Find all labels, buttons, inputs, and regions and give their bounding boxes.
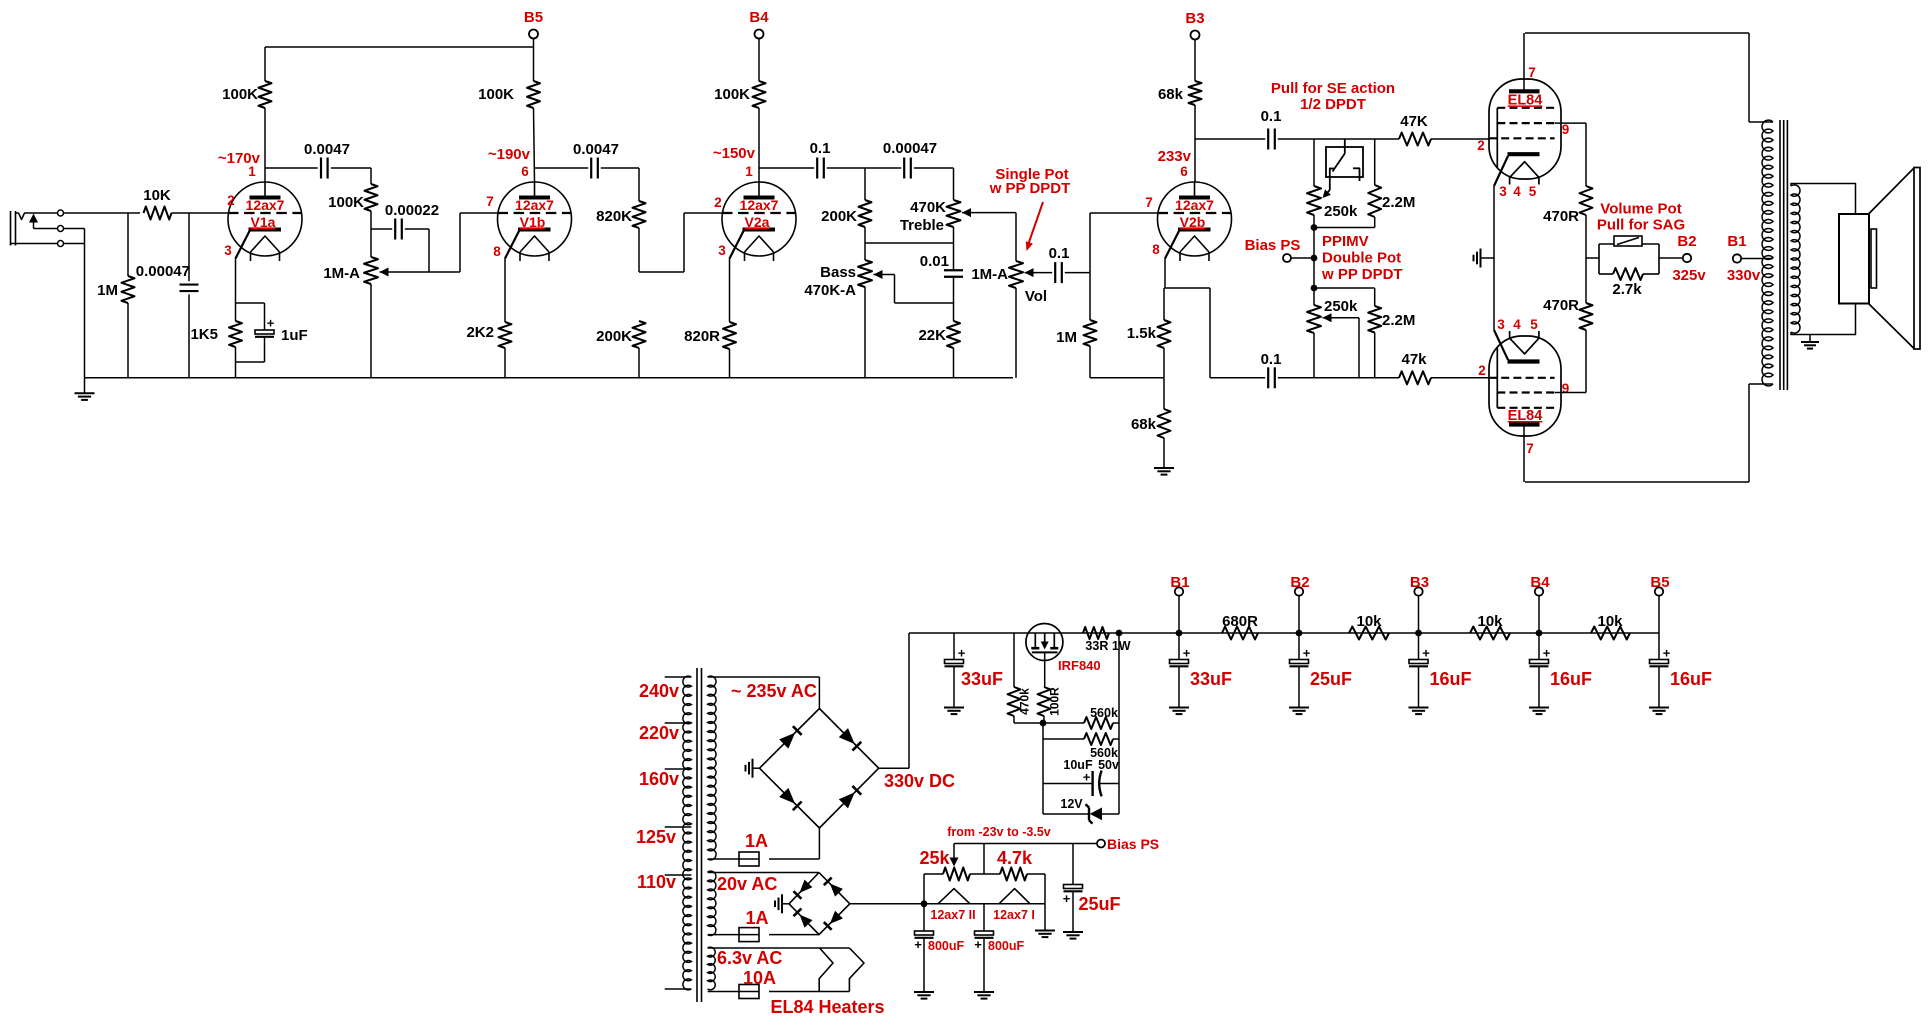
svg-text:470K-A: 470K-A bbox=[804, 282, 856, 299]
wire regulator right column bbox=[1118, 633, 1120, 814]
svg-text:7: 7 bbox=[1528, 65, 1536, 80]
svg-text:470k: 470k bbox=[1018, 688, 1032, 715]
svg-text:16uF: 16uF bbox=[1430, 669, 1472, 689]
svg-text:4: 4 bbox=[1513, 317, 1521, 332]
svg-text:0.1: 0.1 bbox=[810, 140, 831, 157]
terminal B3 bbox=[1414, 587, 1422, 595]
svg-text:2: 2 bbox=[1478, 363, 1486, 378]
capacitor 0.1 PI upper out bbox=[1195, 138, 1265, 140]
svg-text:33uF: 33uF bbox=[1190, 669, 1232, 689]
svg-text:~ 235v AC: ~ 235v AC bbox=[731, 681, 817, 701]
svg-text:100R: 100R bbox=[1048, 687, 1062, 716]
svg-text:2: 2 bbox=[714, 195, 722, 210]
svg-text:B1: B1 bbox=[1727, 233, 1746, 250]
terminal B2 output bbox=[1659, 257, 1683, 259]
resistor 68k B3 feed bbox=[1189, 81, 1202, 105]
svg-text:Pull for SAG: Pull for SAG bbox=[1597, 217, 1685, 234]
ground bbox=[84, 378, 86, 394]
svg-text:25uF: 25uF bbox=[1310, 669, 1352, 689]
red arrow to Vol pot bbox=[1028, 202, 1043, 245]
svg-text:5: 5 bbox=[1529, 184, 1537, 199]
svg-text:240v: 240v bbox=[639, 681, 679, 701]
svg-text:0.00047: 0.00047 bbox=[883, 140, 937, 157]
wire bias out bbox=[850, 903, 1045, 905]
svg-text:250k: 250k bbox=[1324, 203, 1358, 220]
PT primary taps bbox=[665, 676, 692, 678]
svg-text:68k: 68k bbox=[1131, 416, 1157, 433]
transformer PT HV secondary bbox=[708, 676, 716, 860]
resistor 1.5k tail upper bbox=[1164, 259, 1166, 289]
ground B4 bbox=[1529, 707, 1549, 709]
svg-text:2.2M: 2.2M bbox=[1382, 312, 1415, 329]
ground secondary bbox=[1809, 335, 1811, 343]
capacitor 1uF cathode bypass bbox=[236, 302, 265, 304]
svg-text:12ax7 I: 12ax7 I bbox=[993, 908, 1035, 922]
transformer OT core bbox=[1779, 120, 1781, 390]
wire EL84 cathodes bbox=[1493, 186, 1495, 330]
bridge rectifier bias bbox=[789, 873, 850, 935]
wire B+ rail bbox=[909, 632, 1659, 634]
svg-text:330v DC: 330v DC bbox=[884, 771, 955, 791]
tube V2b 12ax7 bbox=[1089, 213, 1091, 273]
resistor 470R lower screen bbox=[1580, 303, 1593, 330]
svg-text:20v AC: 20v AC bbox=[717, 874, 777, 894]
capacitor 0.0047 coupling V1a bbox=[265, 167, 318, 169]
svg-text:160v: 160v bbox=[639, 769, 679, 789]
ground bridge left bbox=[753, 767, 760, 769]
capacitor 0.01 bass bbox=[944, 269, 963, 271]
mosfet IRF840 bbox=[1026, 624, 1063, 661]
svg-text:4.7k: 4.7k bbox=[997, 848, 1033, 868]
resistor 820R cathode V2a bbox=[729, 259, 731, 323]
svg-text:1.5k: 1.5k bbox=[1127, 325, 1157, 342]
svg-text:5: 5 bbox=[1530, 317, 1538, 332]
terminal B4 bbox=[1535, 587, 1543, 595]
svg-text:7: 7 bbox=[486, 194, 494, 209]
svg-text:9: 9 bbox=[1562, 122, 1570, 137]
node PPIMV upper bbox=[1311, 224, 1318, 231]
resistor 560k upper bbox=[1043, 722, 1084, 724]
terminal Bias PS input bbox=[1283, 254, 1291, 262]
svg-text:~150v: ~150v bbox=[713, 145, 756, 162]
diode D2 top-right bbox=[839, 728, 855, 744]
resistor 10K series bbox=[144, 207, 172, 220]
ground 800uF 1 bbox=[914, 991, 934, 993]
ground B5 bbox=[1649, 707, 1669, 709]
svg-text:250k: 250k bbox=[1324, 298, 1358, 315]
resistor 10k B3-B4 bbox=[1470, 627, 1510, 640]
wire PPIMV top rail bbox=[1314, 138, 1399, 140]
capacitor 0.00022 bright bbox=[371, 228, 392, 230]
svg-text:110v: 110v bbox=[637, 872, 676, 892]
svg-text:3: 3 bbox=[224, 243, 232, 258]
svg-text:B5: B5 bbox=[1650, 574, 1669, 591]
node B1 bbox=[1176, 630, 1183, 637]
resistor 47k lower grid stop bbox=[1399, 371, 1431, 384]
resistor 68k tail bbox=[1158, 409, 1171, 438]
svg-text:1M: 1M bbox=[1056, 329, 1077, 346]
heater chevron 12ax7 I bbox=[999, 889, 1030, 904]
terminal B5 bbox=[529, 30, 538, 39]
capacitor 16uF B4 bbox=[1538, 633, 1540, 660]
svg-text:+: + bbox=[914, 937, 922, 952]
svg-text:0.00022: 0.00022 bbox=[385, 202, 439, 219]
jack plug arrow bbox=[29, 214, 38, 223]
svg-text:+: + bbox=[1422, 646, 1430, 661]
svg-text:3: 3 bbox=[1499, 184, 1507, 199]
capacitor 0.00047 treble bbox=[903, 158, 905, 179]
diode bias D2 bbox=[830, 884, 843, 897]
jack sleeve wire bbox=[11, 243, 58, 245]
svg-text:10A: 10A bbox=[743, 968, 776, 988]
speaker bbox=[1839, 214, 1869, 304]
fuse 10A heaters bbox=[708, 991, 739, 993]
svg-text:560k: 560k bbox=[1090, 706, 1118, 720]
tube EL84 lower bbox=[1489, 336, 1561, 436]
potentiometer 250k upper bbox=[1313, 139, 1315, 186]
svg-text:+: + bbox=[1303, 646, 1311, 661]
svg-text:3: 3 bbox=[718, 243, 726, 258]
svg-text:B1: B1 bbox=[1170, 574, 1189, 591]
diode bias D1 bbox=[800, 880, 813, 893]
svg-text:Double Pot: Double Pot bbox=[1322, 250, 1401, 267]
svg-text:0.1: 0.1 bbox=[1261, 108, 1282, 125]
svg-text:12ax7: 12ax7 bbox=[246, 197, 285, 213]
transformer PT 6.3v winding bbox=[708, 947, 716, 990]
fuse 1A HV bbox=[708, 858, 739, 860]
resistor 680R bbox=[1222, 627, 1258, 640]
potentiometer 25k bias bbox=[924, 873, 943, 875]
svg-text:0.1: 0.1 bbox=[1261, 351, 1282, 368]
resistor 2K2 cathode V1b bbox=[504, 259, 506, 323]
ground 33uF reservoir bbox=[944, 707, 964, 709]
resistor 470k gate bleed bbox=[1013, 633, 1015, 687]
svg-text:6: 6 bbox=[521, 164, 529, 179]
node B2 bbox=[1296, 630, 1303, 637]
svg-text:200K: 200K bbox=[821, 208, 857, 225]
wire HV top to bridge bbox=[708, 676, 820, 678]
svg-text:820K: 820K bbox=[596, 208, 632, 225]
node gate divider bbox=[1040, 720, 1047, 727]
node after 33R bbox=[1116, 630, 1123, 637]
wire PPIMV center bbox=[1313, 228, 1315, 289]
capacitor 33uF reservoir bbox=[953, 633, 955, 660]
svg-text:2: 2 bbox=[1477, 138, 1485, 153]
ground 4.7k bbox=[1044, 904, 1046, 931]
svg-text:0.1: 0.1 bbox=[1049, 245, 1070, 262]
svg-text:B4: B4 bbox=[749, 9, 769, 26]
svg-text:+: + bbox=[267, 316, 275, 331]
svg-text:V2b: V2b bbox=[1180, 214, 1206, 230]
node bias feed bbox=[1311, 255, 1318, 262]
svg-text:470R: 470R bbox=[1543, 297, 1579, 314]
fuse 1A bias bbox=[708, 934, 739, 936]
heater ribbon chevron outer bbox=[849, 948, 864, 992]
svg-text:1A: 1A bbox=[745, 908, 768, 928]
svg-text:680R: 680R bbox=[1222, 613, 1258, 630]
node bias filter bbox=[921, 900, 928, 907]
svg-text:Pull for SE action: Pull for SE action bbox=[1271, 80, 1395, 97]
capacitor 0.1 tone slope bbox=[759, 167, 814, 169]
transformer OT secondary bbox=[1791, 185, 1800, 333]
wire screen upper bbox=[1555, 122, 1586, 124]
wire 1M bottom link bbox=[1090, 377, 1164, 379]
capacitor 0.1 PI lower out bbox=[1210, 377, 1265, 379]
svg-text:25k: 25k bbox=[919, 848, 950, 868]
diode D3 left-bottom bbox=[779, 788, 795, 804]
wire 20v top bbox=[708, 872, 819, 874]
ground 25uF bbox=[1063, 931, 1083, 933]
resistor 10k B4-B5 bbox=[1591, 627, 1630, 640]
resistor 10k B2-B3 bbox=[1349, 627, 1389, 640]
svg-text:IRF840: IRF840 bbox=[1058, 658, 1101, 673]
svg-text:1M: 1M bbox=[97, 282, 118, 299]
wire secondary top bbox=[1791, 184, 1856, 215]
node PPIMV lower bbox=[1311, 285, 1318, 292]
svg-text:V1a: V1a bbox=[251, 214, 276, 230]
resistor 100K mixer bbox=[370, 168, 372, 184]
svg-text:from -23v to -3.5v: from -23v to -3.5v bbox=[947, 825, 1051, 839]
svg-text:V1b: V1b bbox=[520, 214, 546, 230]
wire jack ground drop bbox=[84, 229, 86, 378]
diode D1 left-top bbox=[779, 733, 795, 749]
svg-text:EL84 Heaters: EL84 Heaters bbox=[770, 997, 884, 1017]
svg-text:Bias PS: Bias PS bbox=[1107, 836, 1159, 852]
bias wiper arrow bbox=[953, 844, 955, 860]
svg-text:200K: 200K bbox=[596, 328, 632, 345]
resistor 200K divider bbox=[633, 321, 646, 348]
svg-text:V2a: V2a bbox=[745, 214, 770, 230]
svg-text:1A: 1A bbox=[745, 831, 768, 851]
node B3 bbox=[1415, 630, 1422, 637]
transformer PT core bbox=[696, 668, 698, 1002]
resistor 4.7k bias bbox=[970, 873, 1000, 875]
svg-text:10k: 10k bbox=[1477, 613, 1503, 630]
node B4 bbox=[1536, 630, 1543, 637]
resistor 33R 1W bbox=[1083, 627, 1109, 639]
heater chevron 12ax7 II bbox=[938, 889, 970, 904]
capacitor 10uF 50v gate bbox=[1043, 783, 1093, 785]
wire regulator left column bbox=[1042, 723, 1044, 814]
svg-text:B4: B4 bbox=[1530, 574, 1550, 591]
wire B5 rail top bbox=[265, 46, 534, 48]
transformer PT 20v winding bbox=[708, 871, 716, 935]
svg-text:EL84: EL84 bbox=[1508, 408, 1543, 424]
svg-text:+: + bbox=[1063, 891, 1071, 906]
terminal B3 bbox=[1191, 31, 1200, 40]
svg-text:33uF: 33uF bbox=[961, 669, 1003, 689]
svg-text:+: + bbox=[1663, 646, 1671, 661]
terminal B1 center tap bbox=[1733, 254, 1741, 262]
svg-text:w PP DPDT: w PP DPDT bbox=[1321, 266, 1403, 283]
svg-text:8: 8 bbox=[1152, 242, 1160, 257]
svg-text:800uF: 800uF bbox=[928, 939, 964, 953]
svg-text:10uF: 10uF bbox=[1063, 758, 1093, 772]
svg-text:47K: 47K bbox=[1400, 113, 1428, 130]
svg-text:9: 9 bbox=[1562, 381, 1570, 396]
svg-text:330v: 330v bbox=[1727, 267, 1761, 284]
capacitor 0.00047 input bbox=[188, 213, 190, 281]
svg-text:2.7k: 2.7k bbox=[1612, 281, 1642, 298]
svg-text:~190v: ~190v bbox=[488, 146, 531, 163]
svg-text:2: 2 bbox=[227, 193, 235, 208]
svg-text:33R 1W: 33R 1W bbox=[1085, 639, 1130, 653]
svg-text:220v: 220v bbox=[639, 723, 679, 743]
resistor 100K plate V2a bbox=[753, 81, 766, 108]
svg-text:0.0047: 0.0047 bbox=[573, 141, 619, 158]
svg-text:325v: 325v bbox=[1672, 267, 1706, 284]
svg-text:Bias PS: Bias PS bbox=[1245, 237, 1301, 254]
svg-text:1/2 DPDT: 1/2 DPDT bbox=[1300, 96, 1366, 113]
svg-text:B2: B2 bbox=[1290, 574, 1309, 591]
resistor 470R upper screen bbox=[1580, 186, 1593, 215]
svg-text:Volume Pot: Volume Pot bbox=[1600, 201, 1681, 218]
svg-text:0.01: 0.01 bbox=[920, 253, 949, 270]
tube V1a 12ax7 bbox=[228, 182, 302, 256]
svg-text:1uF: 1uF bbox=[281, 327, 308, 344]
resistor 2.7k SAG bbox=[1599, 273, 1613, 275]
svg-text:16uF: 16uF bbox=[1550, 669, 1592, 689]
terminal B4 bbox=[755, 30, 764, 39]
heater ribbon chevron inner bbox=[819, 948, 833, 992]
wire plate lower to OT bbox=[1525, 481, 1749, 483]
zener diode 12V bbox=[1043, 813, 1089, 815]
svg-text:PPIMV: PPIMV bbox=[1322, 233, 1369, 250]
resistor 560k lower bbox=[1043, 738, 1084, 740]
svg-text:B5: B5 bbox=[524, 9, 543, 26]
resistor 22K bbox=[947, 321, 960, 348]
capacitor 800uF bias 2 bbox=[983, 904, 985, 931]
resistor 1K5 cathode bbox=[235, 259, 237, 322]
svg-text:68k: 68k bbox=[1158, 86, 1184, 103]
svg-text:Vol: Vol bbox=[1025, 288, 1047, 305]
resistor 1M V2b grid bbox=[1084, 320, 1097, 346]
svg-text:6.3v AC: 6.3v AC bbox=[717, 948, 782, 968]
capacitor 25uF B2 bbox=[1298, 633, 1300, 660]
svg-text:470K: 470K bbox=[910, 199, 946, 216]
svg-text:1K5: 1K5 bbox=[190, 326, 218, 343]
svg-text:Bass: Bass bbox=[820, 264, 856, 281]
terminal B2 bbox=[1295, 587, 1303, 595]
svg-text:50v: 50v bbox=[1098, 758, 1119, 772]
input jack J1 bbox=[10, 211, 12, 246]
resistor 100K plate V1a bbox=[264, 47, 266, 81]
capacitor 16uF B5 bbox=[1658, 633, 1660, 660]
svg-text:+: + bbox=[1183, 646, 1191, 661]
potentiometer 1M-A Vol bbox=[1015, 213, 1017, 261]
ground bus wire bbox=[85, 377, 1014, 379]
svg-text:B3: B3 bbox=[1185, 10, 1204, 27]
svg-text:+: + bbox=[1543, 646, 1551, 661]
svg-text:7: 7 bbox=[1145, 195, 1153, 210]
svg-text:2.2M: 2.2M bbox=[1382, 194, 1415, 211]
terminal B5 rail bbox=[1655, 587, 1663, 595]
wire to V2a grid bbox=[639, 271, 684, 273]
svg-text:100K: 100K bbox=[222, 86, 258, 103]
transformer PT primary bbox=[683, 676, 692, 990]
svg-text:Treble: Treble bbox=[900, 217, 944, 234]
wire bridge out 330v bbox=[879, 767, 909, 769]
capacitor 800uF bias 1 bbox=[923, 904, 925, 931]
svg-text:+: + bbox=[974, 937, 982, 952]
capacitor 25uF bias bbox=[1072, 844, 1074, 885]
diode bias D4 bbox=[830, 911, 843, 924]
svg-text:B3: B3 bbox=[1410, 574, 1429, 591]
tube V1b 12ax7 bbox=[498, 182, 572, 256]
capacitor 16uF B3 bbox=[1418, 633, 1420, 660]
bridge rectifier main bbox=[760, 709, 879, 829]
svg-text:10k: 10k bbox=[1356, 613, 1382, 630]
diode bias D3 bbox=[800, 915, 813, 928]
resistor 2.2M upper bbox=[1374, 139, 1376, 185]
ground B2 bbox=[1289, 707, 1309, 709]
svg-text:125v: 125v bbox=[636, 827, 676, 847]
svg-text:100K: 100K bbox=[714, 86, 750, 103]
wire 6.3v top bbox=[708, 947, 850, 949]
transformer OT primary bbox=[1762, 120, 1773, 386]
terminal Bias PS out bbox=[1097, 840, 1105, 848]
svg-text:EL84: EL84 bbox=[1508, 92, 1543, 108]
potentiometer 470K Treble bbox=[947, 200, 961, 227]
resistor 100R gate stop bbox=[1038, 687, 1051, 716]
ground EL84 cathode bbox=[1481, 257, 1494, 259]
wire PI cathode to lower output bbox=[1164, 287, 1210, 289]
svg-text:3: 3 bbox=[1497, 317, 1505, 332]
diode D4 bottom-right bbox=[839, 792, 855, 808]
resistor 1M grid bbox=[127, 213, 129, 276]
ground B1 bbox=[1169, 707, 1189, 709]
svg-text:1: 1 bbox=[745, 164, 753, 179]
svg-text:7: 7 bbox=[1526, 441, 1534, 456]
svg-text:10k: 10k bbox=[1597, 613, 1623, 630]
svg-text:4: 4 bbox=[1513, 184, 1521, 199]
potentiometer 250k lower bbox=[1313, 288, 1315, 305]
svg-text:47k: 47k bbox=[1401, 351, 1427, 368]
resistor 47K upper grid stop bbox=[1399, 133, 1431, 146]
svg-text:100K: 100K bbox=[478, 86, 514, 103]
resistor 100K plate V1b bbox=[527, 81, 540, 108]
svg-text:470R: 470R bbox=[1543, 208, 1579, 225]
svg-text:12V: 12V bbox=[1060, 797, 1083, 811]
resistor 820K bbox=[638, 168, 640, 201]
svg-text:12ax7: 12ax7 bbox=[740, 197, 779, 213]
svg-text:800uF: 800uF bbox=[988, 939, 1024, 953]
ground 800uF 2 bbox=[974, 991, 994, 993]
svg-text:~170v: ~170v bbox=[218, 150, 261, 167]
svg-text:12ax7: 12ax7 bbox=[515, 197, 554, 213]
svg-text:0.00047: 0.00047 bbox=[136, 263, 190, 280]
svg-text:B2: B2 bbox=[1677, 233, 1696, 250]
ground B3 bbox=[1409, 707, 1429, 709]
svg-text:8: 8 bbox=[493, 244, 501, 259]
svg-text:10K: 10K bbox=[143, 187, 171, 204]
svg-text:w PP DPDT: w PP DPDT bbox=[989, 180, 1071, 197]
svg-text:25uF: 25uF bbox=[1079, 894, 1121, 914]
potentiometer 470K-A Bass bbox=[858, 260, 872, 287]
ground bias bridge bbox=[783, 903, 790, 905]
svg-text:+: + bbox=[958, 646, 966, 661]
wire secondary bottom bbox=[1791, 304, 1856, 335]
wire bias top rail bbox=[954, 843, 1097, 845]
tube EL84 upper bbox=[1489, 79, 1561, 179]
capacitor 0.0047 coupling V1b bbox=[535, 167, 589, 169]
wire treble bottom to bass top bbox=[865, 242, 954, 244]
svg-text:22K: 22K bbox=[918, 327, 946, 344]
svg-text:820R: 820R bbox=[684, 328, 720, 345]
potentiometer 1M-A V1b grid bbox=[370, 229, 372, 257]
tube V2a 12ax7 bbox=[722, 182, 796, 256]
svg-text:6: 6 bbox=[1180, 164, 1188, 179]
